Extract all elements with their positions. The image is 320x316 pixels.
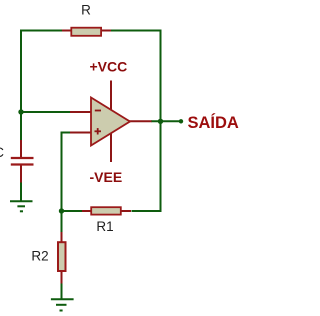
node: junction at inverting input / capacitor <box>18 109 23 114</box>
wire: R2 bottom to ground <box>61 283 63 300</box>
wire: inverting input horizontal <box>21 111 70 113</box>
resistor R1 body <box>91 207 121 214</box>
op-amp U1 non-inverting input pin <box>70 132 92 134</box>
op-amp U1 power pin +VCC <box>110 81 112 113</box>
svg-text:-VEE: -VEE <box>90 169 123 185</box>
resistor R2 pins <box>61 232 63 243</box>
resistor R2 body <box>58 242 66 271</box>
op-amp U1 plus symbol <box>95 130 102 132</box>
capacitor C pins <box>20 140 22 157</box>
wire: R1 left segment <box>62 210 83 212</box>
svg-text:R1: R1 <box>96 219 113 234</box>
resistor R pins <box>62 30 72 32</box>
wire: left vertical from feedback down to capacitor <box>20 30 22 142</box>
wire: R2 top segment <box>61 211 63 233</box>
wire: output to SAIDA terminal <box>151 120 181 122</box>
wire: capacitor bottom to ground <box>20 182 22 201</box>
svg-text:R2: R2 <box>31 249 48 264</box>
node: junction R1/R2 <box>59 208 64 213</box>
capacitor C plates <box>11 157 34 159</box>
node: junction at output / feedback <box>158 119 163 124</box>
svg-text:+VCC: +VCC <box>90 58 128 74</box>
node: SAIDA terminal dot <box>179 119 183 123</box>
wire: non-inverting input L-shape down to R1/R2 junction <box>62 133 71 212</box>
svg-text:R: R <box>81 3 91 18</box>
op-amp U1 power pin -VEE <box>110 131 112 162</box>
op-amp U1 triangle body <box>91 98 130 146</box>
ground (below resistor R2) <box>51 299 74 310</box>
svg-text:C: C <box>0 145 4 160</box>
wire: top feedback right segment <box>111 30 161 32</box>
resistor R body <box>71 28 101 36</box>
wire: right vertical from feedback to R1 row <box>132 30 161 212</box>
op-amp U1 inverting input pin <box>70 111 92 113</box>
ground (below capacitor C) <box>10 201 33 211</box>
op-amp U1 output pin <box>129 120 152 122</box>
op-amp U1 minus symbol <box>95 110 101 112</box>
resistor R1 pins <box>82 210 92 212</box>
svg-text:SAÍDA: SAÍDA <box>188 113 239 132</box>
wire: top feedback left segment <box>22 30 63 32</box>
